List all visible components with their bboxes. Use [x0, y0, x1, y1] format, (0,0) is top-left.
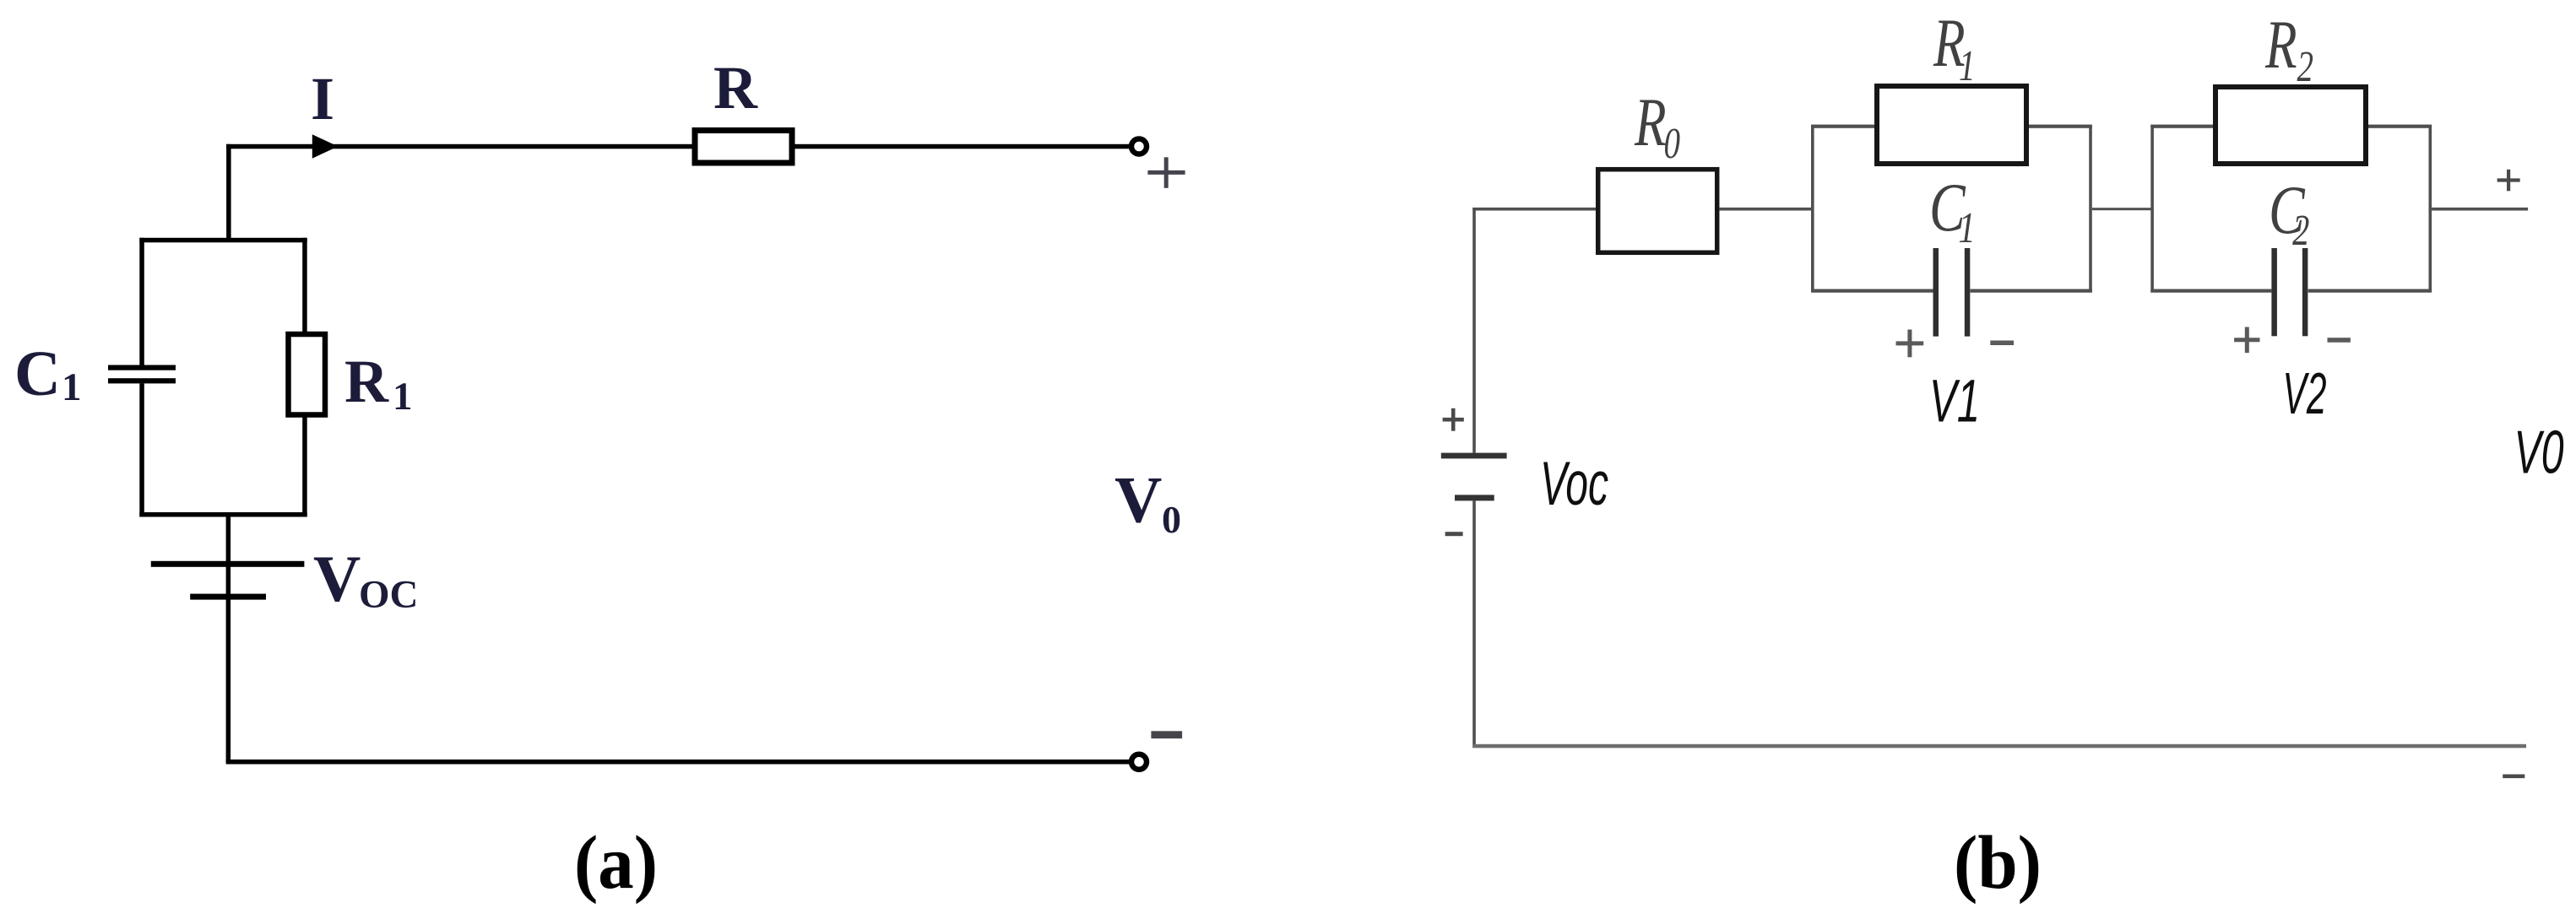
svg-text:1: 1	[62, 365, 82, 409]
wire: right branch lower vertical from R1 to bottom rail (a)	[302, 418, 307, 517]
svg-text:2: 2	[2297, 42, 2314, 91]
minus sign at output - (b)	[2503, 775, 2524, 779]
wire: bottom horizontal wire (a)	[226, 760, 1130, 765]
resistor R0 (b)	[1598, 170, 1717, 253]
wire: output wire to + terminal (b)	[2432, 208, 2528, 211]
label C1 (b)	[1929, 168, 1976, 252]
battery Voc short plate (a)	[190, 594, 266, 600]
svg-text:OC: OC	[359, 573, 419, 617]
wire: RC block 2 bottom rail left segment (b)	[2150, 289, 2271, 293]
svg-text:V: V	[1114, 463, 1162, 537]
wire: left vertical lower segment (b)	[1472, 500, 1476, 748]
svg-text:R: R	[2264, 5, 2297, 83]
wire: right branch upper vertical to R1 (a)	[302, 238, 307, 332]
wire: RC block 1 bottom rail right segment (b)	[1971, 289, 2092, 293]
wire: center vertical through battery (a)	[226, 512, 231, 762]
plus sign at battery + (b)	[1443, 408, 1464, 431]
battery Voc short plate (b)	[1455, 495, 1494, 500]
svg-text:I: I	[311, 65, 334, 132]
battery Voc long plate (b)	[1441, 453, 1507, 459]
svg-text:V2: V2	[2283, 360, 2327, 426]
svg-text:0: 0	[1162, 498, 1181, 541]
svg-text:V1: V1	[1929, 369, 1980, 435]
label C2 (b)	[2269, 170, 2309, 255]
wire: RC block 2 right vertical (b)	[2429, 125, 2432, 293]
label R1 (b)	[1933, 3, 1975, 89]
svg-text:R: R	[344, 348, 389, 415]
resistor R1 (a)	[289, 334, 326, 415]
svg-text:V0: V0	[2514, 419, 2564, 487]
wire: RC block 1 left vertical (b)	[1811, 125, 1814, 293]
wire: RC block 2 top rail (b)	[2150, 125, 2432, 128]
svg-text:2: 2	[2292, 206, 2309, 255]
minus sign at C1 (b)	[1990, 341, 2014, 346]
battery Voc long plate (a)	[151, 561, 305, 567]
wire: vertical from top node down to parallel block (a)	[226, 144, 231, 242]
svg-text:C: C	[14, 338, 61, 409]
svg-text:R: R	[713, 54, 758, 122]
plus sign at C1 (b)	[1896, 330, 1924, 358]
wire: parallel block bottom rail (a)	[139, 512, 306, 517]
capacitor C1 plates (a)	[108, 365, 176, 370]
resistor R1 (b)	[1877, 86, 2026, 164]
wire: bottom horizontal wire (b)	[1472, 744, 2526, 749]
terminal node + (a): open circle	[1131, 139, 1147, 154]
plus sign at output + (a)	[1147, 157, 1185, 188]
wire: parallel block top rail (a)	[139, 238, 306, 243]
svg-text:Voc: Voc	[1540, 450, 1608, 518]
wire: RC block 2 bottom rail right segment (b)	[2308, 289, 2432, 293]
svg-text:1: 1	[1959, 41, 1976, 89]
wire: RC block 1 top rail (b)	[1811, 125, 2092, 128]
wire: RC block 1 right vertical (b)	[2089, 125, 2092, 293]
minus sign at C2 (b)	[2328, 338, 2351, 343]
resistor R2 (b)	[2215, 87, 2366, 164]
wire: main horizontal from source to R0 (b)	[1472, 208, 1597, 211]
svg-text:1: 1	[393, 375, 413, 419]
svg-text:0: 0	[1664, 119, 1681, 168]
svg-text:1: 1	[1958, 203, 1975, 252]
capacitor C1 plates (b)	[1933, 248, 1939, 337]
wire: left branch upper vertical to C1 (a)	[139, 238, 144, 366]
svg-text:V: V	[313, 542, 361, 615]
terminal node - (a): open circle	[1131, 754, 1147, 770]
wire: RC block 2 left vertical (b)	[2150, 125, 2154, 293]
svg-text:R: R	[1634, 83, 1666, 160]
wire: connector between RC blocks (b)	[2092, 208, 2152, 210]
svg-text:(b): (b)	[1954, 821, 2042, 905]
label R2 (b)	[2264, 5, 2313, 90]
svg-text:(a): (a)	[574, 821, 658, 905]
current arrowhead I (a)	[312, 134, 339, 158]
capacitor C2 plates (b)	[2271, 248, 2277, 336]
wire: left vertical upper segment (b)	[1472, 208, 1476, 453]
wire: RC block 1 bottom rail left segment (b)	[1811, 289, 1933, 293]
minus sign at output - (a)	[1151, 731, 1182, 738]
wire: from R0 to first RC block (b)	[1719, 208, 1814, 211]
label R0 (b)	[1634, 83, 1680, 167]
plus sign at output + (b)	[2497, 170, 2520, 192]
plus sign at C2 (b)	[2234, 327, 2259, 354]
wire: left branch lower vertical from C1 to bottom rail (a)	[139, 383, 144, 516]
wire: top horizontal wire left segment (a)	[226, 144, 692, 149]
wire: top horizontal wire right segment (a)	[795, 144, 1131, 149]
resistor R (a)	[695, 131, 792, 164]
minus sign at battery - (b)	[1445, 532, 1463, 536]
